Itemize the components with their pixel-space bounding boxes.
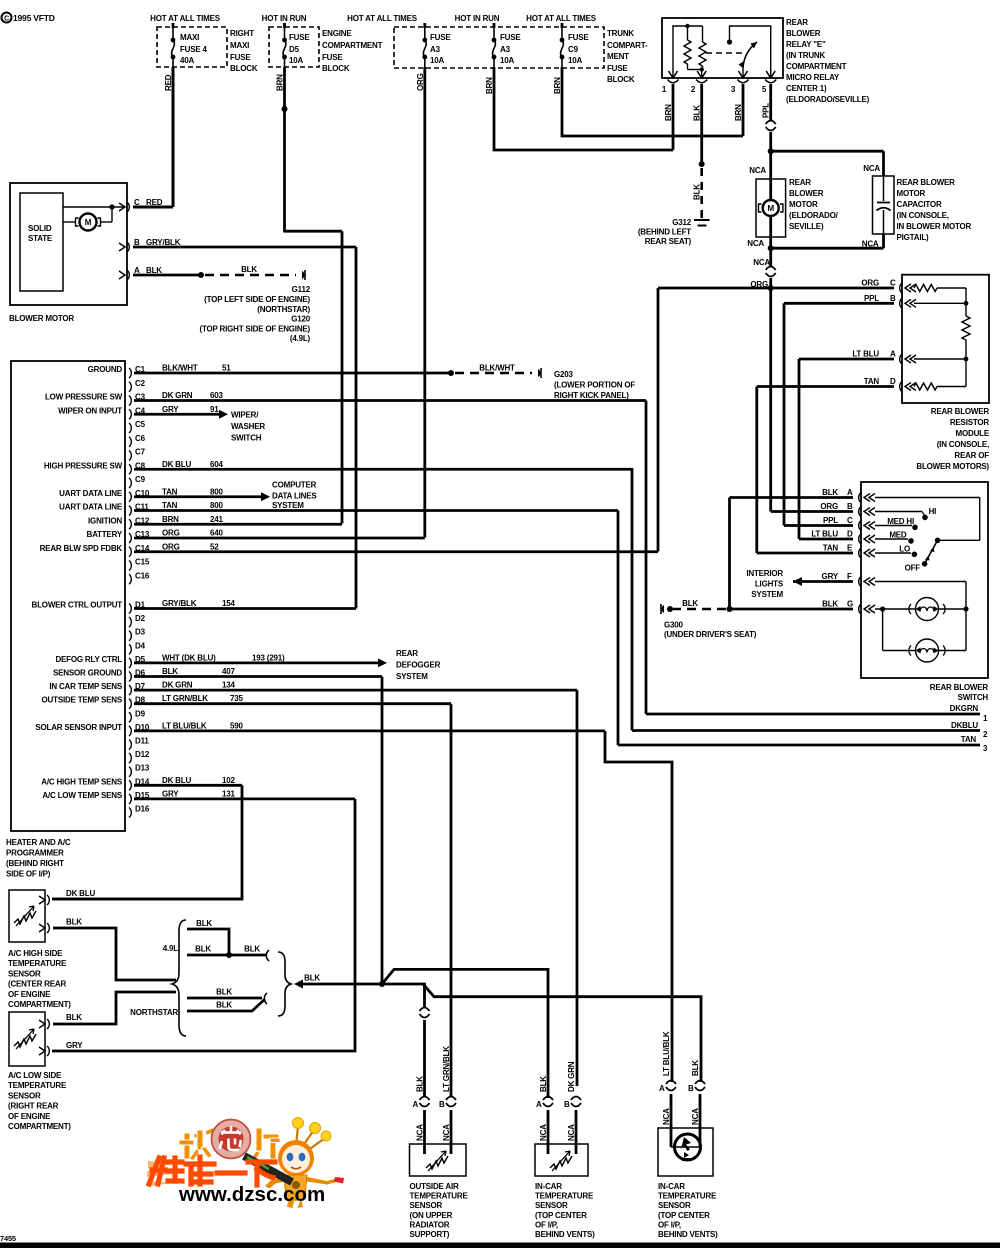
svg-text:G312: G312 [672, 218, 692, 227]
svg-text:GRY: GRY [66, 1041, 83, 1050]
svg-text:10A: 10A [500, 56, 514, 65]
svg-text:RIGHT: RIGHT [230, 29, 254, 38]
svg-text:BLK/WHT: BLK/WHT [162, 364, 198, 373]
svg-text:FUSE: FUSE [322, 53, 343, 62]
svg-text:131: 131 [222, 789, 235, 798]
svg-text:HOT AT ALL TIMES: HOT AT ALL TIMES [150, 14, 221, 23]
svg-text:MED HI: MED HI [887, 517, 914, 526]
svg-text:HI: HI [929, 507, 937, 516]
svg-text:NCA: NCA [863, 164, 880, 173]
svg-text:SUPPORT): SUPPORT) [410, 1230, 450, 1239]
svg-text:FUSE: FUSE [500, 33, 521, 42]
svg-text:OF ENGINE: OF ENGINE [8, 1112, 51, 1121]
svg-text:MAXI: MAXI [180, 33, 199, 42]
svg-text:SYSTEM: SYSTEM [751, 590, 783, 599]
svg-text:102: 102 [222, 776, 235, 785]
svg-text:193 (291): 193 (291) [252, 653, 285, 662]
svg-text:590: 590 [230, 721, 243, 730]
svg-text:DKGRN: DKGRN [950, 704, 979, 713]
svg-text:WHT (DK BLU): WHT (DK BLU) [162, 653, 216, 662]
svg-text:PPL: PPL [864, 294, 879, 303]
svg-text:BEHIND VENTS): BEHIND VENTS) [535, 1230, 595, 1239]
svg-text:INTERIOR: INTERIOR [746, 569, 783, 578]
svg-text:(TOP LEFT SIDE OF ENGINE): (TOP LEFT SIDE OF ENGINE) [204, 295, 310, 304]
svg-text:UART DATA LINE: UART DATA LINE [59, 503, 123, 512]
svg-text:RED: RED [164, 74, 173, 91]
svg-text:(TOP CENTER: (TOP CENTER [658, 1211, 710, 1220]
svg-text:BLK: BLK [691, 1060, 700, 1076]
svg-text:WASHER: WASHER [231, 422, 265, 431]
svg-text:2: 2 [691, 85, 696, 94]
svg-text:RIGHT KICK PANEL): RIGHT KICK PANEL) [554, 391, 629, 400]
svg-text:B: B [564, 1100, 570, 1109]
svg-text:HIGH PRESSURE SW: HIGH PRESSURE SW [44, 461, 123, 470]
svg-text:C9: C9 [568, 45, 579, 54]
svg-text:BLOCK: BLOCK [322, 64, 350, 73]
svg-text:SOLAR SENSOR INPUT: SOLAR SENSOR INPUT [35, 723, 122, 732]
svg-text:BRN: BRN [664, 104, 673, 121]
svg-text:GRY/BLK: GRY/BLK [162, 599, 197, 608]
svg-text:TAN: TAN [162, 501, 178, 510]
svg-text:G: G [847, 600, 853, 609]
svg-text:B: B [439, 1100, 445, 1109]
svg-text:A3: A3 [500, 45, 511, 54]
svg-text:(TOP CENTER: (TOP CENTER [535, 1211, 587, 1220]
svg-text:SENSOR GROUND: SENSOR GROUND [53, 669, 122, 678]
svg-text:7455: 7455 [0, 1234, 16, 1243]
svg-text:10A: 10A [289, 56, 303, 65]
svg-text:BRN: BRN [162, 515, 179, 524]
svg-text:TAN: TAN [864, 377, 880, 386]
svg-text:(LOWER PORTION OF: (LOWER PORTION OF [554, 381, 635, 390]
svg-text:TAN: TAN [162, 487, 178, 496]
svg-text:BRN: BRN [276, 74, 285, 91]
svg-text:C5: C5 [135, 420, 146, 429]
svg-text:A/C HIGH TEMP SENS: A/C HIGH TEMP SENS [41, 777, 123, 786]
svg-text:LOW PRESSURE SW: LOW PRESSURE SW [45, 393, 123, 402]
svg-text:ORG: ORG [162, 529, 180, 538]
svg-text:PROGRAMMER: PROGRAMMER [6, 849, 64, 858]
svg-text:COMPARTMENT): COMPARTMENT) [8, 1122, 71, 1131]
svg-text:RESISTOR: RESISTOR [950, 418, 990, 427]
svg-text:TRUNK: TRUNK [607, 29, 634, 38]
svg-text:BLK: BLK [244, 945, 260, 954]
svg-text:HEATER AND A/C: HEATER AND A/C [6, 838, 71, 847]
svg-text:(ELDORADO/SEVILLE): (ELDORADO/SEVILLE) [786, 95, 870, 104]
svg-text:3: 3 [731, 85, 736, 94]
svg-text:ORG: ORG [162, 542, 180, 551]
svg-text:GROUND: GROUND [88, 365, 123, 374]
svg-text:A: A [890, 350, 896, 359]
svg-text:C9: C9 [135, 475, 146, 484]
svg-text:D11: D11 [135, 737, 149, 746]
svg-text:SEVILLE): SEVILLE) [789, 222, 824, 231]
svg-text:A/C HIGH SIDE: A/C HIGH SIDE [8, 949, 63, 958]
svg-text:241: 241 [210, 515, 223, 524]
svg-text:D3: D3 [135, 628, 146, 637]
svg-text:G112: G112 [292, 285, 311, 294]
svg-text:RADIATOR: RADIATOR [410, 1220, 450, 1229]
svg-text:MED: MED [889, 531, 907, 540]
svg-text:PPL: PPL [823, 516, 838, 525]
svg-text:DK BLU: DK BLU [162, 460, 191, 469]
svg-text:BLK: BLK [216, 1001, 232, 1010]
svg-text:LT BLU/BLK: LT BLU/BLK [162, 721, 207, 730]
svg-text:BLOWER: BLOWER [789, 189, 824, 198]
svg-text:D9: D9 [135, 709, 146, 718]
svg-text:C6: C6 [135, 434, 146, 443]
svg-text:IN BLOWER MOTOR: IN BLOWER MOTOR [897, 222, 972, 231]
svg-text:TAN: TAN [823, 544, 839, 553]
svg-text:D13: D13 [135, 764, 150, 773]
svg-text:REAR BLOWER: REAR BLOWER [931, 407, 990, 416]
svg-text:ENGINE: ENGINE [322, 29, 352, 38]
svg-text:SENSOR: SENSOR [410, 1201, 443, 1210]
svg-text:C: C [4, 16, 9, 23]
svg-text:BLOCK: BLOCK [607, 75, 635, 84]
svg-text:D5: D5 [289, 45, 300, 54]
svg-text:BLK: BLK [195, 945, 211, 954]
svg-text:BLK: BLK [162, 667, 178, 676]
svg-text:GRY: GRY [822, 572, 839, 581]
svg-text:M: M [767, 204, 774, 213]
svg-text:BLK: BLK [822, 600, 838, 609]
svg-text:E: E [847, 544, 853, 553]
svg-text:DK GRN: DK GRN [162, 391, 193, 400]
svg-text:G203: G203 [554, 370, 574, 379]
svg-text:BLK: BLK [693, 105, 702, 121]
svg-text:FUSE: FUSE [568, 33, 589, 42]
svg-text:(CENTER REAR: (CENTER REAR [8, 980, 66, 989]
svg-text:REAR: REAR [789, 178, 811, 187]
svg-text:D: D [847, 530, 853, 539]
svg-text:CENTER 1): CENTER 1) [786, 84, 827, 93]
svg-text:WIPER/: WIPER/ [231, 411, 259, 420]
svg-text:DK BLU: DK BLU [162, 776, 191, 785]
svg-text:HOT IN RUN: HOT IN RUN [455, 14, 500, 23]
svg-text:5: 5 [762, 85, 767, 94]
svg-text:F: F [847, 572, 852, 581]
svg-text:GRY: GRY [162, 789, 179, 798]
svg-text:MODULE: MODULE [956, 429, 990, 438]
svg-text:TEMPERATURE: TEMPERATURE [8, 1081, 67, 1090]
svg-text:NCA: NCA [539, 1124, 548, 1141]
svg-text:154: 154 [222, 599, 235, 608]
svg-text:RELAY "E": RELAY "E" [786, 40, 826, 49]
svg-text:C2: C2 [135, 379, 146, 388]
svg-text:(RIGHT REAR: (RIGHT REAR [8, 1102, 59, 1111]
svg-text:A: A [659, 1084, 665, 1093]
svg-text:PPL: PPL [762, 103, 771, 118]
svg-text:LT BLU/BLK: LT BLU/BLK [662, 1031, 671, 1076]
svg-text:MOTOR: MOTOR [897, 189, 926, 198]
svg-text:FUSE 4: FUSE 4 [180, 45, 208, 54]
svg-text:C16: C16 [135, 571, 150, 580]
svg-text:LO: LO [899, 545, 910, 554]
svg-text:C: C [890, 279, 896, 288]
svg-text:FUSE: FUSE [430, 33, 451, 42]
svg-text:800: 800 [210, 487, 223, 496]
svg-text:BLOWER CTRL OUTPUT: BLOWER CTRL OUTPUT [32, 601, 123, 610]
svg-text:DK GRN: DK GRN [567, 1061, 576, 1092]
svg-text:NCA: NCA [567, 1124, 576, 1141]
svg-text:COMPUTER: COMPUTER [272, 481, 317, 490]
svg-text:SENSOR: SENSOR [8, 1091, 41, 1100]
svg-text:1: 1 [662, 85, 667, 94]
svg-text:BRN: BRN [734, 104, 743, 121]
svg-text:603: 603 [210, 391, 223, 400]
svg-text:DEFOGGER: DEFOGGER [396, 661, 441, 670]
svg-text:BLK: BLK [682, 599, 698, 608]
svg-text:TEMPERATURE: TEMPERATURE [410, 1192, 469, 1201]
svg-text:TEMPERATURE: TEMPERATURE [8, 959, 67, 968]
svg-text:LT BLU: LT BLU [852, 350, 879, 359]
svg-text:3: 3 [983, 744, 988, 753]
svg-text:B: B [688, 1084, 694, 1093]
svg-text:TEMPERATURE: TEMPERATURE [535, 1192, 594, 1201]
svg-text:(IN CONSOLE,: (IN CONSOLE, [897, 211, 949, 220]
svg-text:UART DATA LINE: UART DATA LINE [59, 489, 123, 498]
svg-text:LIGHTS: LIGHTS [755, 580, 784, 589]
svg-text:G120: G120 [291, 315, 311, 324]
svg-text:A/C LOW SIDE: A/C LOW SIDE [8, 1071, 62, 1080]
svg-text:BEHIND VENTS): BEHIND VENTS) [658, 1230, 718, 1239]
svg-text:G300: G300 [664, 621, 684, 630]
svg-text:FUSE: FUSE [289, 33, 310, 42]
svg-text:A: A [536, 1100, 542, 1109]
svg-text:SENSOR: SENSOR [658, 1201, 691, 1210]
svg-text:SENSOR: SENSOR [8, 969, 41, 978]
svg-text:STATE: STATE [28, 234, 53, 243]
svg-text:REAR BLOWER: REAR BLOWER [930, 683, 989, 692]
svg-text:91: 91 [210, 405, 219, 414]
svg-text:B: B [890, 294, 896, 303]
svg-text:1: 1 [983, 714, 988, 723]
svg-text:BLK/WHT: BLK/WHT [479, 364, 515, 373]
svg-text:SOLID: SOLID [28, 224, 52, 233]
svg-text:FUSE: FUSE [230, 53, 251, 62]
svg-text:REAR SEAT): REAR SEAT) [645, 237, 692, 246]
svg-text:TAN: TAN [961, 735, 977, 744]
svg-text:OF I/P,: OF I/P, [535, 1220, 558, 1229]
svg-text:BLK: BLK [66, 1013, 82, 1022]
svg-text:51: 51 [222, 364, 231, 373]
svg-text:DK GRN: DK GRN [162, 681, 193, 690]
svg-text:GRY: GRY [162, 405, 179, 414]
svg-text:SYSTEM: SYSTEM [396, 672, 428, 681]
svg-text:604: 604 [210, 460, 223, 469]
svg-text:OF ENGINE: OF ENGINE [8, 990, 51, 999]
svg-text:OUTSIDE TEMP SENS: OUTSIDE TEMP SENS [42, 696, 123, 705]
svg-text:52: 52 [210, 542, 219, 551]
svg-text:D16: D16 [135, 805, 150, 814]
svg-text:(UNDER DRIVER'S SEAT): (UNDER DRIVER'S SEAT) [664, 630, 757, 639]
svg-text:SENSOR: SENSOR [535, 1201, 568, 1210]
svg-text:OUTSIDE AIR: OUTSIDE AIR [410, 1182, 459, 1191]
svg-text:NCA: NCA [749, 166, 766, 175]
svg-text:D: D [890, 377, 896, 386]
svg-text:BLOCK: BLOCK [230, 64, 258, 73]
svg-text:(NORTHSTAR): (NORTHSTAR) [257, 305, 310, 314]
svg-text:MENT: MENT [607, 52, 629, 61]
svg-text:COMPART-: COMPART- [607, 41, 648, 50]
svg-text:IN-CAR: IN-CAR [535, 1182, 562, 1191]
svg-text:NCA: NCA [753, 258, 770, 267]
svg-text:NCA: NCA [747, 239, 764, 248]
svg-text:(TOP RIGHT SIDE OF ENGINE): (TOP RIGHT SIDE OF ENGINE) [199, 325, 310, 334]
svg-text:D12: D12 [135, 750, 150, 759]
svg-text:MOTOR: MOTOR [789, 200, 818, 209]
svg-text:SIDE OF I/P): SIDE OF I/P) [6, 870, 51, 879]
svg-text:www.dzsc.com: www.dzsc.com [178, 1183, 325, 1206]
svg-text:BLK: BLK [539, 1076, 548, 1092]
svg-text:NCA: NCA [416, 1124, 425, 1141]
svg-text:A3: A3 [430, 45, 441, 54]
svg-text:D2: D2 [135, 614, 146, 623]
svg-text:MAXI: MAXI [230, 41, 249, 50]
svg-text:BLK: BLK [66, 918, 82, 927]
svg-text:BLOWER MOTOR: BLOWER MOTOR [9, 314, 74, 323]
svg-text:(BEHIND LEFT: (BEHIND LEFT [638, 228, 691, 237]
svg-text:BRN: BRN [485, 77, 494, 94]
svg-text:WIPER ON INPUT: WIPER ON INPUT [58, 406, 122, 415]
svg-text:BLK: BLK [196, 919, 212, 928]
svg-text:NORTHSTAR: NORTHSTAR [130, 1008, 178, 1017]
svg-text:BLK: BLK [216, 988, 232, 997]
svg-text:BLK: BLK [304, 974, 320, 983]
svg-text:NCA: NCA [662, 1108, 671, 1125]
svg-text:A/C LOW TEMP SENS: A/C LOW TEMP SENS [42, 791, 122, 800]
svg-text:LT BLU: LT BLU [811, 530, 838, 539]
svg-text:REAR: REAR [786, 18, 808, 27]
svg-text:C: C [847, 516, 853, 525]
svg-text:PIGTAIL): PIGTAIL) [897, 233, 930, 242]
svg-text:1995 VFTD: 1995 VFTD [13, 13, 55, 23]
svg-text:HOT AT ALL TIMES: HOT AT ALL TIMES [526, 14, 597, 23]
svg-text:NCA: NCA [442, 1124, 451, 1141]
svg-text:10A: 10A [568, 56, 582, 65]
svg-text:HOT IN RUN: HOT IN RUN [262, 14, 307, 23]
svg-text:LT GRN/BLK: LT GRN/BLK [442, 1046, 451, 1092]
svg-text:DK BLU: DK BLU [66, 889, 95, 898]
svg-text:FUSE: FUSE [607, 64, 628, 73]
svg-text:40A: 40A [180, 56, 194, 65]
svg-text:A: A [847, 488, 853, 497]
svg-text:REAR: REAR [396, 649, 418, 658]
svg-text:IGNITION: IGNITION [88, 516, 122, 525]
svg-text:ORG: ORG [861, 279, 879, 288]
svg-text:134: 134 [222, 681, 235, 690]
svg-text:COMPARTMENT): COMPARTMENT) [8, 1000, 71, 1009]
svg-text:BLK: BLK [416, 1076, 425, 1092]
svg-text:NCA: NCA [691, 1108, 700, 1125]
svg-text:DKBLU: DKBLU [951, 721, 978, 730]
svg-text:OF I/P,: OF I/P, [658, 1220, 681, 1229]
svg-text:10A: 10A [430, 56, 444, 65]
svg-text:4.9L: 4.9L [163, 944, 179, 953]
svg-text:(BEHIND RIGHT: (BEHIND RIGHT [6, 859, 64, 868]
svg-text:800: 800 [210, 501, 223, 510]
svg-text:DEFOG RLY CTRL: DEFOG RLY CTRL [55, 655, 122, 664]
svg-text:A: A [413, 1100, 419, 1109]
svg-text:REAR BLOWER: REAR BLOWER [897, 178, 956, 187]
svg-text:BLK: BLK [822, 488, 838, 497]
svg-text:BLK: BLK [241, 265, 257, 274]
svg-text:SWITCH: SWITCH [958, 693, 989, 702]
svg-text:BLK: BLK [693, 184, 702, 200]
svg-text:SYSTEM: SYSTEM [272, 501, 304, 510]
svg-text:640: 640 [210, 529, 223, 538]
svg-text:2: 2 [983, 730, 988, 739]
svg-text:BRN: BRN [553, 77, 562, 94]
svg-text:HOT AT ALL TIMES: HOT AT ALL TIMES [347, 14, 418, 23]
svg-text:407: 407 [222, 667, 235, 676]
svg-text:BLOWER MOTORS): BLOWER MOTORS) [916, 462, 989, 471]
svg-text:C7: C7 [135, 448, 146, 457]
svg-text:(4.9L): (4.9L) [290, 334, 311, 343]
svg-text:NCA: NCA [862, 240, 879, 249]
svg-text:BATTERY: BATTERY [87, 530, 123, 539]
svg-text:MICRO RELAY: MICRO RELAY [786, 73, 840, 82]
svg-text:(ELDORADO/: (ELDORADO/ [789, 211, 839, 220]
svg-text:TEMPERATURE: TEMPERATURE [658, 1192, 717, 1201]
svg-text:LT GRN/BLK: LT GRN/BLK [162, 694, 208, 703]
svg-text:(IN CONSOLE,: (IN CONSOLE, [937, 440, 989, 449]
svg-text:REAR BLW SPD FDBK: REAR BLW SPD FDBK [40, 544, 123, 553]
svg-text:(IN TRUNK: (IN TRUNK [786, 51, 826, 60]
svg-text:ORG: ORG [416, 73, 425, 91]
svg-text:COMPARTMENT: COMPARTMENT [322, 41, 383, 50]
svg-text:D4: D4 [135, 641, 146, 650]
svg-text:OFF: OFF [905, 564, 921, 573]
svg-text:C15: C15 [135, 558, 150, 567]
svg-text:COMPARTMENT: COMPARTMENT [786, 62, 847, 71]
svg-text:IN CAR TEMP SENS: IN CAR TEMP SENS [49, 682, 123, 691]
svg-text:(ON UPPER: (ON UPPER [410, 1211, 453, 1220]
svg-text:BLOWER: BLOWER [786, 29, 821, 38]
svg-text:ORG: ORG [820, 502, 838, 511]
svg-text:DATA LINES: DATA LINES [272, 492, 317, 501]
svg-text:735: 735 [230, 694, 243, 703]
svg-text:REAR OF: REAR OF [954, 451, 989, 460]
svg-text:M: M [85, 218, 92, 227]
svg-text:IN-CAR: IN-CAR [658, 1182, 685, 1191]
svg-text:B: B [847, 502, 853, 511]
svg-text:CAPACITOR: CAPACITOR [897, 200, 942, 209]
svg-text:SWITCH: SWITCH [231, 434, 262, 443]
